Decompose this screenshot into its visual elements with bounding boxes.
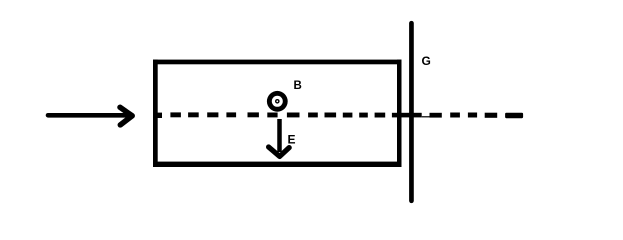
incident beam arrow (velocity) shaft [48,113,131,118]
field region box [153,60,402,167]
beam axis dashed line [158,112,524,118]
incident beam arrow head [120,107,132,125]
svg-text:B: B [294,80,302,92]
B field out-of-page symbol outer circle [267,91,288,112]
screen G vertical line [409,23,414,201]
svg-text:E: E [288,132,296,146]
svg-text:G: G [422,54,431,68]
B field symbol inner white [272,96,283,107]
B field symbol center dot [275,99,280,104]
E field arrow shaft [277,119,282,152]
B field symbol center dot hole [276,100,278,102]
E field arrow head [269,147,290,156]
